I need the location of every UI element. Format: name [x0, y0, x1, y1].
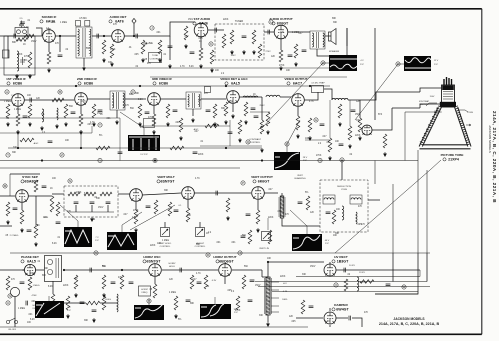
capacitor C29 — [246, 214, 251, 216]
wire — [68, 211, 114, 213]
capacitor C19 — [351, 110, 356, 112]
wire cathode — [280, 39, 282, 50]
junction — [261, 159, 263, 161]
svg-text:4.7K: 4.7K — [325, 321, 330, 323]
svg-text:VERT: VERT — [297, 175, 303, 177]
resistor R58 — [301, 300, 305, 314]
resistor R1 — [24, 34, 34, 38]
svg-text:33K: 33K — [13, 147, 18, 149]
ground — [28, 74, 32, 79]
ground — [191, 118, 195, 123]
wire — [268, 261, 324, 263]
ground — [256, 228, 260, 233]
flyback taps — [271, 282, 279, 312]
resistor R34 — [50, 196, 54, 212]
resistor R5 — [110, 44, 114, 58]
resistor R31 — [34, 180, 38, 192]
capacitor C26 — [146, 206, 151, 208]
resistor R29 — [358, 118, 362, 132]
svg-text:P-P: P-P — [434, 64, 438, 66]
resistor R62 — [308, 118, 312, 132]
wire — [87, 98, 110, 100]
ground — [345, 60, 349, 65]
svg-text:220K: 220K — [280, 276, 286, 278]
callout line — [355, 64, 404, 120]
svg-text:21XP4: 21XP4 — [448, 158, 459, 162]
svg-text:220K: 220K — [63, 285, 69, 287]
ground — [213, 122, 217, 127]
junction — [225, 147, 227, 149]
svg-text:F: F — [286, 142, 288, 146]
svg-text:H: H — [341, 158, 343, 162]
wire — [267, 262, 269, 277]
resistor R53 — [153, 284, 157, 298]
junction — [153, 147, 155, 149]
svg-text:33K: 33K — [302, 274, 307, 276]
callout line — [122, 212, 142, 232]
svg-text:1K: 1K — [100, 114, 103, 116]
svg-text:5%: 5% — [99, 135, 102, 137]
ground — [102, 293, 106, 298]
tube V16 horiz output — [219, 264, 232, 277]
svg-text:B: B — [59, 90, 61, 94]
capacitor C43 — [92, 310, 97, 312]
resistor R76 — [102, 296, 106, 310]
junction — [80, 147, 82, 149]
dashed box deflection yoke — [320, 180, 368, 232]
wire — [267, 218, 269, 230]
wire — [419, 270, 421, 277]
svg-text:CONTROL: CONTROL — [160, 246, 171, 248]
capacitor C64 — [118, 152, 123, 154]
resistor R28 — [338, 104, 342, 118]
svg-text:6AL5: 6AL5 — [27, 260, 36, 264]
svg-text:HORIZ: HORIZ — [169, 263, 176, 265]
svg-text:TUNER: TUNER — [235, 20, 244, 23]
capacitor C4 — [58, 55, 63, 57]
ground — [242, 50, 246, 55]
label 1st audio tube — [193, 17, 211, 26]
capacitor C30 — [326, 212, 331, 214]
svg-text:1K: 1K — [199, 41, 202, 43]
wire corner 2 — [375, 253, 418, 294]
resistor R55 — [204, 275, 208, 289]
resistor R73 — [248, 230, 252, 244]
ground — [224, 120, 228, 125]
junction — [309, 85, 311, 87]
waveform photo audio 2 — [404, 56, 431, 71]
resistor R72 — [56, 202, 60, 216]
wire CRT cathode — [420, 104, 442, 108]
test point Q — [246, 140, 250, 144]
junction — [133, 35, 135, 37]
ground — [15, 74, 19, 79]
svg-text:10K: 10K — [335, 141, 340, 143]
resistor R48 — [28, 277, 32, 290]
svg-text:10 KV: 10 KV — [349, 265, 355, 267]
svg-text:.001: .001 — [156, 32, 161, 34]
svg-text:8.2K: 8.2K — [48, 286, 53, 288]
test point X — [334, 283, 338, 287]
svg-text:P-P: P-P — [360, 64, 364, 66]
svg-text:1 MEG: 1 MEG — [14, 109, 21, 111]
resistor R75 — [66, 296, 70, 310]
ground — [168, 64, 172, 69]
svg-text:.047: .047 — [192, 279, 197, 281]
resistor R19 — [79, 114, 83, 126]
waveform photo AGC — [35, 301, 64, 318]
long diagonal callout 2 — [335, 160, 441, 253]
svg-text:4.7K: 4.7K — [195, 178, 200, 180]
wire — [329, 308, 331, 311]
wire — [346, 28, 348, 46]
capacitor C58 — [241, 236, 246, 238]
svg-text:68K: 68K — [332, 18, 337, 20]
wire — [281, 193, 283, 196]
wire plate — [55, 35, 76, 37]
svg-text:220K: 220K — [223, 19, 229, 21]
ground — [90, 217, 94, 222]
capacitor C31 — [20, 282, 25, 284]
svg-text:ION TRAP: ION TRAP — [419, 100, 430, 103]
ion trap magnet — [426, 103, 437, 106]
svg-text:N: N — [69, 179, 71, 183]
ground — [252, 50, 256, 55]
wire — [296, 276, 420, 278]
svg-text:6BQ6GT: 6BQ6GT — [219, 260, 234, 264]
resistor R63 — [328, 138, 332, 152]
wire — [21, 203, 23, 210]
capacitor C7 — [168, 46, 173, 48]
wire row2 a — [0, 117, 120, 119]
test point bus 4 — [238, 251, 242, 255]
svg-text:VIDEO DET & AGC: VIDEO DET & AGC — [220, 77, 248, 81]
resistor R33 — [6, 202, 10, 216]
wire — [264, 192, 278, 194]
wire — [100, 302, 117, 304]
transformer T1 sound IF — [76, 27, 92, 58]
svg-text:TONE: TONE — [152, 55, 159, 57]
svg-text:PICTURE TUBE: PICTURE TUBE — [441, 153, 464, 157]
ground — [92, 318, 96, 323]
svg-text:47K: 47K — [55, 43, 60, 45]
resistor R56 — [242, 275, 246, 289]
ground — [184, 44, 188, 49]
wire video to CRT — [360, 92, 420, 100]
svg-text:DAMPER: DAMPER — [334, 303, 348, 307]
test point E — [396, 62, 400, 66]
svg-text:6AC7: 6AC7 — [293, 82, 302, 86]
wire to audio amp — [148, 22, 186, 36]
svg-text:.005: .005 — [134, 54, 139, 56]
resistor R71 — [258, 44, 262, 58]
dashed box tuner — [215, 24, 264, 60]
svg-text:4.5 MC TRAP: 4.5 MC TRAP — [311, 82, 325, 85]
deflection yoke label — [459, 110, 468, 112]
tube V6 6CB6 — [75, 93, 88, 106]
wire — [336, 269, 352, 271]
border frame bottom — [0, 333, 482, 335]
wire — [229, 120, 231, 146]
svg-text:150V: 150V — [355, 114, 361, 116]
small box — [85, 21, 90, 27]
svg-text:.005: .005 — [198, 38, 203, 40]
coil — [342, 206, 344, 220]
svg-text:214A, 217A, B, C, 220A, B, 221: 214A, 217A, B, C, 220A, B, 221A, B — [379, 322, 440, 326]
resistor R23 — [166, 104, 170, 118]
svg-text:220K: 220K — [198, 154, 204, 156]
box terminal — [3, 50, 10, 58]
tube V1 6AU6 — [43, 30, 56, 43]
resistor R3 — [47, 52, 51, 64]
junction — [139, 85, 141, 87]
wire — [368, 199, 380, 201]
wire audio — [124, 35, 148, 37]
tube V18 damper — [324, 312, 336, 324]
resistor R27 — [296, 116, 300, 130]
callout line — [290, 210, 307, 234]
tube V2 6AT6 — [112, 30, 125, 43]
svg-text:2ND VIDEO IF: 2ND VIDEO IF — [77, 77, 97, 81]
wire to speaker — [325, 35, 331, 37]
svg-text:BLANKING: BLANKING — [294, 177, 305, 180]
test point Z — [60, 153, 64, 157]
svg-text:33K: 33K — [47, 29, 52, 31]
resistor R41 — [186, 208, 190, 222]
capacitor C54 — [228, 132, 233, 134]
svg-text:G: G — [315, 118, 317, 122]
svg-text:270V: 270V — [265, 51, 271, 53]
svg-text:47K: 47K — [118, 277, 123, 279]
capacitor C16 — [145, 112, 150, 114]
wire — [0, 225, 12, 227]
resistor R77 — [174, 296, 178, 310]
svg-text:AGC: AGC — [34, 142, 39, 145]
svg-text:270K: 270K — [133, 210, 139, 212]
ground — [16, 130, 20, 135]
svg-text:A: A — [6, 90, 8, 94]
wire row2 c — [140, 125, 230, 127]
svg-text:1 MEG: 1 MEG — [33, 285, 40, 287]
svg-text:5U4G: 5U4G — [105, 299, 111, 301]
ground — [266, 130, 270, 135]
wire — [36, 269, 44, 271]
wire — [257, 200, 259, 210]
wire — [92, 35, 112, 37]
wire — [0, 99, 11, 101]
control height — [196, 228, 205, 237]
resistor R18 — [64, 104, 68, 118]
test point B — [58, 90, 62, 94]
wire — [64, 269, 148, 271]
resistor R42 — [168, 202, 172, 216]
label phase det — [21, 255, 39, 264]
ground — [158, 58, 162, 63]
wire — [75, 205, 77, 212]
small tube left edge — [10, 287, 19, 296]
small box peaking — [205, 87, 211, 93]
svg-text:.005: .005 — [357, 224, 362, 226]
capacitor C5 — [97, 34, 99, 39]
resistor R82 — [170, 146, 184, 150]
capacitor C33 — [90, 268, 92, 273]
svg-text:VERT LIN: VERT LIN — [259, 248, 269, 250]
resistor R67 — [238, 120, 242, 134]
ground — [82, 66, 86, 71]
tube V17 HV rect — [324, 264, 336, 276]
resistor R66 — [179, 118, 183, 132]
svg-text:R: R — [207, 253, 209, 257]
capacitor C17 — [173, 110, 178, 112]
resistor R10 — [199, 48, 203, 60]
ground — [358, 136, 362, 141]
resistor R47 — [6, 276, 10, 290]
wire — [336, 317, 348, 319]
test point A — [5, 90, 9, 94]
svg-text:12K: 12K — [157, 243, 162, 245]
wire plate — [208, 29, 224, 31]
svg-text:6.3V: 6.3V — [212, 280, 217, 282]
svg-text:270K: 270K — [316, 155, 322, 157]
svg-text:CONTROL: CONTROL — [150, 59, 161, 61]
wire plate — [288, 31, 310, 33]
wire — [10, 173, 40, 175]
junction — [75, 85, 77, 87]
svg-text:3 V P-P: 3 V P-P — [140, 154, 148, 156]
svg-text:1ST VIDEO IF: 1ST VIDEO IF — [6, 77, 26, 81]
wire — [83, 58, 85, 66]
wire — [142, 193, 181, 195]
wire — [324, 89, 332, 100]
svg-text:6CB6: 6CB6 — [159, 82, 168, 86]
wire corner 3 — [426, 253, 428, 282]
wire B+ drop — [346, 28, 348, 56]
resistor R69 — [210, 50, 214, 64]
svg-text:AUDIO OUTPUT: AUDIO OUTPUT — [269, 17, 293, 21]
resistor R20 — [92, 104, 96, 118]
ground — [47, 68, 51, 73]
svg-text:1K: 1K — [253, 94, 256, 96]
svg-text:150V: 150V — [31, 41, 37, 43]
svg-text:HV RECT: HV RECT — [334, 255, 348, 259]
svg-text:220K: 220K — [150, 245, 156, 247]
label picture tube — [441, 153, 464, 162]
wire — [224, 277, 226, 284]
capacitor C ant — [19, 21, 24, 28]
waveform photo video out — [274, 152, 300, 170]
svg-text:P-P: P-P — [325, 243, 329, 245]
svg-text:FREQ: FREQ — [142, 292, 148, 294]
svg-text:68K: 68K — [135, 93, 140, 95]
capacitor C41 — [309, 306, 314, 308]
svg-text:1K: 1K — [23, 44, 26, 46]
wire — [372, 108, 392, 130]
test point G — [314, 118, 318, 122]
capacitor C8 — [215, 28, 217, 33]
svg-text:.001: .001 — [231, 242, 236, 244]
svg-text:6W4GT: 6W4GT — [336, 308, 349, 312]
wire — [329, 100, 331, 138]
svg-text:12K: 12K — [271, 56, 276, 58]
waveform photo video IF — [128, 135, 160, 151]
wire CRT grid — [420, 88, 442, 92]
ground — [348, 144, 352, 149]
wire — [199, 222, 201, 228]
wire — [91, 126, 93, 133]
wire vertical right — [374, 28, 376, 120]
wire — [9, 174, 11, 196]
coil — [324, 198, 334, 200]
resistor R26 contrast — [260, 120, 264, 134]
svg-text:150V: 150V — [98, 207, 104, 209]
wire sound IF input — [0, 35, 42, 37]
svg-text:.047: .047 — [123, 214, 128, 216]
svg-text:.047: .047 — [268, 189, 273, 191]
test point S — [8, 294, 12, 298]
svg-text:HORIZ: HORIZ — [141, 289, 148, 291]
svg-text:1 MEG: 1 MEG — [60, 22, 67, 24]
ground — [279, 66, 283, 71]
test point bus 1 — [98, 158, 102, 162]
svg-text:68K: 68K — [42, 275, 47, 277]
label horiz osc — [143, 255, 161, 264]
wire — [35, 196, 37, 224]
svg-text:28 V: 28 V — [303, 157, 308, 159]
volume control — [143, 43, 147, 46]
svg-text:VIDEO OUTPUT: VIDEO OUTPUT — [284, 77, 307, 81]
svg-text:ON-OFF: ON-OFF — [8, 329, 17, 331]
resistor R22 — [152, 114, 156, 126]
trimmer capacitor C3 — [20, 57, 25, 65]
svg-text:.005: .005 — [81, 101, 86, 103]
svg-text:4 V: 4 V — [360, 60, 364, 62]
wire — [192, 109, 194, 116]
wire — [80, 106, 82, 114]
svg-text:150V: 150V — [310, 266, 316, 268]
ground — [55, 124, 59, 129]
svg-text:V: V — [148, 299, 150, 303]
junction — [41, 159, 43, 161]
wire — [52, 281, 54, 294]
svg-text:10K: 10K — [43, 217, 48, 219]
resistor R54 — [190, 275, 194, 289]
resistor R21 — [138, 104, 142, 118]
svg-text:.005: .005 — [291, 321, 296, 323]
AGC box — [144, 119, 155, 128]
capacitor C36 — [180, 268, 182, 273]
svg-text:270K: 270K — [30, 273, 36, 275]
switch S1 — [6, 318, 17, 324]
svg-text:270K: 270K — [76, 192, 82, 194]
svg-text:1ST AUDIO: 1ST AUDIO — [194, 17, 211, 21]
antenna terminal box — [15, 28, 28, 37]
wire anode drop — [404, 112, 406, 161]
capacitor C10 — [268, 30, 270, 35]
picture tube CRT bell right band — [455, 106, 472, 147]
wire — [52, 193, 64, 195]
svg-text:CONTRAST: CONTRAST — [249, 138, 262, 141]
callout line — [262, 63, 329, 128]
wire — [64, 302, 86, 304]
test point K — [209, 42, 213, 46]
svg-text:8.2K: 8.2K — [84, 193, 89, 195]
ground — [308, 136, 312, 141]
ground — [6, 122, 10, 127]
svg-text:.001: .001 — [216, 242, 221, 244]
svg-text:19 KV: 19 KV — [359, 272, 365, 274]
wire vertical right 3 — [392, 184, 394, 253]
svg-text:E: E — [397, 62, 399, 66]
